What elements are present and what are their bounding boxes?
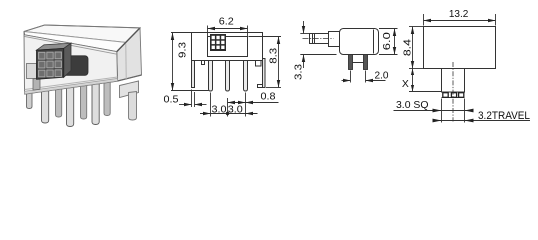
svg-text:0.8: 0.8 (261, 92, 276, 103)
svg-text:3.0: 3.0 (212, 105, 227, 116)
svg-text:3.0: 3.0 (228, 105, 243, 116)
svg-text:8.3: 8.3 (268, 48, 279, 64)
svg-text:9.3: 9.3 (177, 42, 188, 58)
svg-text:3.0 SQ: 3.0 SQ (396, 100, 429, 111)
svg-text:3.2TRAVEL: 3.2TRAVEL (478, 110, 530, 122)
svg-text:6.0: 6.0 (382, 32, 393, 50)
svg-text:3.3: 3.3 (294, 64, 305, 80)
svg-text:13.2: 13.2 (449, 9, 469, 20)
svg-text:2.0: 2.0 (375, 70, 389, 81)
svg-text:X: X (402, 79, 409, 90)
svg-text:0.5: 0.5 (164, 95, 179, 106)
svg-text:8.4: 8.4 (402, 39, 413, 56)
svg-text:6.2: 6.2 (219, 17, 234, 28)
